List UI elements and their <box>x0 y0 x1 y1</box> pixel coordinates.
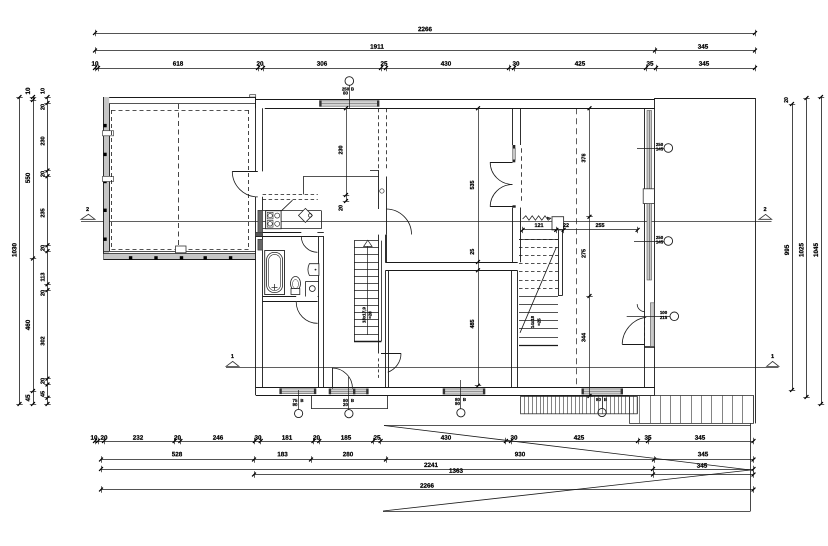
svg-text:20: 20 <box>343 402 348 407</box>
section line 1-1 <box>226 354 779 368</box>
svg-text:20: 20 <box>41 171 47 177</box>
svg-text:425: 425 <box>574 435 585 442</box>
svg-text:345: 345 <box>698 44 709 51</box>
wall bathroom wc divider <box>263 297 319 302</box>
horizontal dim 121/22/255 <box>521 223 640 233</box>
door wc room <box>296 302 317 324</box>
svg-text:1025: 1025 <box>799 243 806 258</box>
svg-text:35: 35 <box>646 61 654 68</box>
left dimension chain overall 1030 <box>12 95 23 406</box>
svg-text:235: 235 <box>41 208 47 217</box>
terrace steps hatched band right <box>630 396 754 424</box>
svg-text:10: 10 <box>91 61 99 68</box>
dashed centerline room <box>576 108 578 387</box>
bottom dimension row 2266 <box>99 483 755 493</box>
svg-text:20: 20 <box>174 435 182 442</box>
wall lower middle room west <box>386 271 389 388</box>
svg-text:345: 345 <box>695 435 706 442</box>
garage center footing <box>176 246 187 253</box>
svg-text:302: 302 <box>41 336 47 345</box>
staircase label <box>362 307 373 323</box>
stair break zigzag <box>523 216 551 220</box>
kitchen partition line <box>303 171 379 195</box>
svg-text:618: 618 <box>173 61 184 68</box>
svg-text:25: 25 <box>380 61 388 68</box>
svg-text:2266: 2266 <box>418 26 433 33</box>
kitchen counter <box>263 200 322 229</box>
top window marker <box>342 77 354 109</box>
window marker wc bottom <box>293 390 304 418</box>
svg-text:=28: =28 <box>368 311 373 319</box>
svg-text:10: 10 <box>90 435 98 442</box>
vertical dim 535/25/485 <box>470 106 481 387</box>
kitchen upper cabinets dashed <box>263 195 318 200</box>
door hall to lower room <box>379 353 402 380</box>
vertical dim 230/20 kitchen <box>339 106 350 211</box>
garage wall post dots <box>103 124 232 260</box>
right dimension chain 1025 <box>799 96 810 399</box>
svg-text:344: 344 <box>582 333 588 342</box>
porch outline <box>311 396 388 409</box>
svg-text:181: 181 <box>282 435 293 442</box>
svg-text:550: 550 <box>25 172 32 183</box>
left dimension chain 10/550/460/45 <box>25 87 36 406</box>
svg-text:20: 20 <box>41 290 47 296</box>
bottom dimension row 528/183/280/930/345 <box>99 451 755 462</box>
svg-text:=25: =25 <box>537 318 542 326</box>
svg-text:20: 20 <box>256 61 264 68</box>
staircase basement flight <box>519 240 558 346</box>
door bathroom <box>301 236 317 252</box>
wall lower middle room east <box>512 271 518 388</box>
kitchen stove <box>266 211 282 229</box>
toilet <box>291 277 301 295</box>
door marker hall bottom <box>343 377 354 418</box>
garage wall notches <box>103 131 114 182</box>
staircase basement label <box>530 315 542 328</box>
svg-text:183: 183 <box>277 451 288 458</box>
diagonal leader lower <box>383 470 751 511</box>
svg-text:B: B <box>300 398 303 403</box>
dimension row segments top <box>91 61 756 72</box>
bottom dimension row 2241 <box>99 462 755 472</box>
svg-text:345: 345 <box>699 61 710 68</box>
svg-text:20: 20 <box>339 205 345 211</box>
svg-text:10: 10 <box>25 87 32 95</box>
svg-text:B: B <box>351 398 354 403</box>
svg-text:1: 1 <box>231 354 234 360</box>
door hall exterior <box>332 368 367 389</box>
svg-text:20: 20 <box>784 97 790 103</box>
svg-text:30: 30 <box>510 435 518 442</box>
svg-text:2: 2 <box>86 207 89 213</box>
garage center dashed line <box>178 104 180 251</box>
section line 2-2 <box>81 207 772 222</box>
svg-text:145: 145 <box>656 239 664 244</box>
svg-text:230: 230 <box>339 146 345 155</box>
window right wall upper <box>647 111 652 189</box>
bottom dimension row 1363/345 <box>252 463 755 478</box>
svg-text:145: 145 <box>656 146 664 151</box>
garage outer walls <box>104 97 256 260</box>
svg-text:345: 345 <box>698 451 709 458</box>
garage inner dashed outline <box>112 110 249 250</box>
floor drain <box>309 286 315 292</box>
window top wall 306 <box>319 100 379 106</box>
dimension row total 2266 top <box>93 26 757 36</box>
svg-text:35: 35 <box>644 435 652 442</box>
right dimension chain 1045 <box>813 95 824 406</box>
svg-text:B: B <box>463 397 466 402</box>
staircase basement cut diagonal <box>520 247 556 333</box>
svg-text:45: 45 <box>41 391 47 397</box>
terrace slab edge line <box>384 425 751 427</box>
svg-text:280: 280 <box>343 451 354 458</box>
svg-text:121: 121 <box>534 223 543 229</box>
svg-text:113: 113 <box>41 272 47 281</box>
wall stairwell east <box>558 230 563 296</box>
house right wall <box>644 98 655 395</box>
svg-text:20: 20 <box>100 435 108 442</box>
svg-text:215: 215 <box>660 315 668 320</box>
svg-text:430: 430 <box>441 435 452 442</box>
left dimension chain room segments <box>41 88 51 406</box>
duct dashed above wall <box>379 108 387 170</box>
wall hall / upper room with duct <box>379 170 387 262</box>
terrace steps hatched band left <box>521 396 638 413</box>
svg-text:430: 430 <box>441 61 452 68</box>
pillar right wall <box>643 189 654 204</box>
staircase up arrow <box>364 240 373 335</box>
svg-text:25: 25 <box>470 249 476 255</box>
svg-text:306: 306 <box>317 61 328 68</box>
svg-text:45: 45 <box>25 394 32 402</box>
svg-text:246: 246 <box>213 435 224 442</box>
svg-text:230: 230 <box>41 136 47 145</box>
door lower right room exterior <box>622 303 654 347</box>
window bottom wall room <box>443 388 486 394</box>
wall hall left / bathroom right <box>319 236 324 387</box>
svg-text:20: 20 <box>41 245 47 251</box>
door garage to house <box>232 171 257 197</box>
staircase main flight <box>354 241 381 342</box>
window bottom wall terrace <box>582 388 624 394</box>
svg-text:90: 90 <box>455 401 460 406</box>
svg-text:1: 1 <box>771 354 774 360</box>
svg-text:90: 90 <box>293 402 298 407</box>
svg-text:275: 275 <box>582 249 588 258</box>
wall upper rooms divider horizontal <box>385 235 517 271</box>
kitchen sink diamond <box>299 208 313 222</box>
svg-text:2: 2 <box>763 207 766 213</box>
window marker right lower <box>634 235 673 245</box>
dashed opening beside double door <box>521 148 523 202</box>
window left wall bathroom <box>258 239 263 250</box>
svg-text:1030: 1030 <box>12 243 19 258</box>
svg-text:376: 376 <box>582 154 588 163</box>
svg-text:1363: 1363 <box>449 468 464 475</box>
garage top step notch <box>250 95 256 97</box>
svg-text:B: B <box>351 86 354 91</box>
house left wall <box>256 97 263 395</box>
window right wall lower <box>647 204 652 281</box>
wall stair east <box>379 241 382 354</box>
window bottom wall wc <box>279 388 316 394</box>
window marker room bottom <box>455 380 466 417</box>
entry threshold window bottom hall <box>329 389 369 395</box>
wall kitchen bathroom divider <box>256 232 324 236</box>
svg-text:930: 930 <box>515 451 526 458</box>
svg-text:2241: 2241 <box>424 462 439 469</box>
double door living room <box>490 145 516 208</box>
svg-text:20: 20 <box>41 104 47 110</box>
bathtub <box>265 251 285 295</box>
svg-text:80: 80 <box>343 90 348 95</box>
washbasin <box>308 264 319 276</box>
svg-text:1911: 1911 <box>370 44 384 51</box>
dimension row 1911/345 <box>93 44 757 54</box>
bottom frame line <box>383 423 751 511</box>
right dimension chain 995 <box>784 97 795 392</box>
marker terrace <box>596 396 607 417</box>
door upper middle room <box>380 189 412 235</box>
svg-text:14x18: 14x18 <box>530 315 535 328</box>
house bottom wall <box>256 388 655 396</box>
svg-text:22: 22 <box>563 223 569 229</box>
vertical dim 376/275/344 <box>582 106 593 398</box>
svg-text:1045: 1045 <box>813 243 820 258</box>
svg-text:485: 485 <box>470 320 476 329</box>
window marker right upper <box>637 142 673 152</box>
svg-text:25: 25 <box>373 435 381 442</box>
svg-text:232: 232 <box>133 435 144 442</box>
svg-text:18x17,9: 18x17,9 <box>362 307 367 323</box>
stair newel box <box>552 217 564 230</box>
bathroom niche walls <box>306 281 319 296</box>
right wing outline <box>655 98 756 423</box>
bottom dimension row segments <box>90 435 755 445</box>
svg-text:20: 20 <box>313 435 321 442</box>
svg-text:10: 10 <box>41 88 47 94</box>
svg-text:255: 255 <box>595 223 604 229</box>
wall double door vertical <box>513 108 521 262</box>
svg-text:30: 30 <box>254 435 262 442</box>
window left wall kitchen <box>258 210 263 234</box>
svg-text:425: 425 <box>575 61 586 68</box>
svg-text:2266: 2266 <box>420 483 435 490</box>
door marker right <box>627 310 679 321</box>
svg-text:535: 535 <box>470 181 476 190</box>
svg-text:528: 528 <box>172 451 183 458</box>
svg-text:995: 995 <box>784 244 791 255</box>
svg-text:20: 20 <box>41 378 47 384</box>
svg-text:185: 185 <box>341 435 352 442</box>
svg-text:460: 460 <box>25 319 32 330</box>
diagonal leader upper <box>384 426 751 471</box>
svg-text:30: 30 <box>512 61 520 68</box>
house top wall <box>256 97 655 109</box>
